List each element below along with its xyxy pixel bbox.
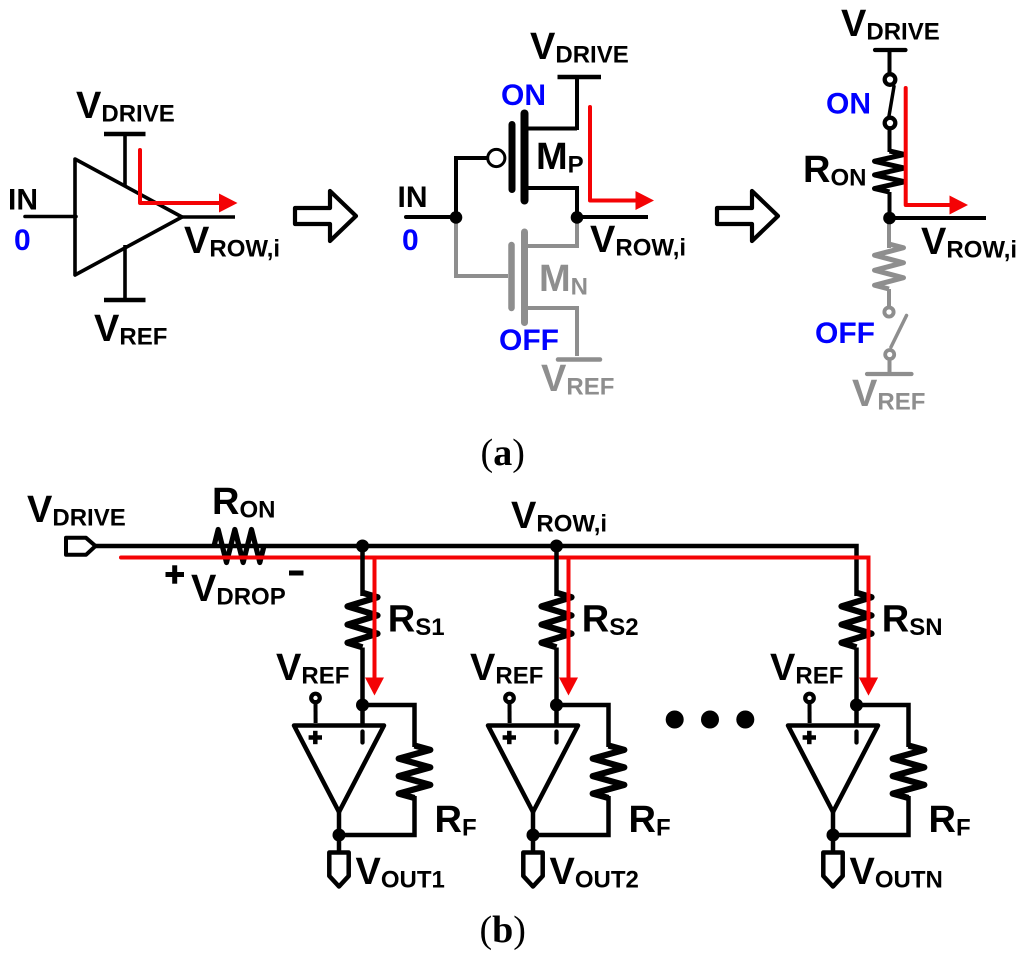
- svg-text:(b): (b): [479, 909, 525, 951]
- svg-text:0: 0: [14, 224, 31, 257]
- svg-text:ON: ON: [826, 88, 871, 121]
- svg-text:IN: IN: [398, 181, 428, 214]
- svg-text:ON: ON: [501, 79, 546, 112]
- svg-text:0: 0: [402, 224, 419, 257]
- svg-text:IN: IN: [8, 184, 38, 217]
- svg-text:OFF: OFF: [499, 324, 559, 357]
- svg-text:(a): (a): [481, 432, 525, 474]
- svg-text:OFF: OFF: [815, 317, 875, 350]
